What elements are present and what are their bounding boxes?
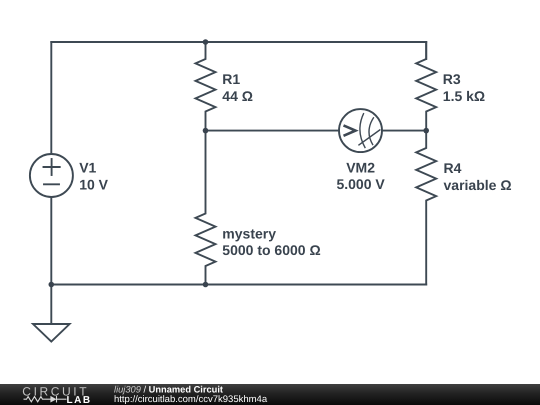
voltmeter VM2	[339, 109, 382, 152]
svg-text:5000 to 6000 Ω: 5000 to 6000 Ω	[222, 242, 320, 258]
svg-text:R1: R1	[222, 71, 240, 87]
svg-text:LAB: LAB	[67, 395, 92, 405]
svg-text:44 Ω: 44 Ω	[222, 88, 253, 104]
resistor mystery	[196, 131, 216, 285]
svg-text:10 V: 10 V	[79, 176, 108, 192]
voltage source V1	[30, 154, 73, 197]
svg-text:http://circuitlab.com/ccv7k935: http://circuitlab.com/ccv7k935khm4a	[114, 394, 268, 405]
ground	[33, 324, 70, 342]
svg-text:R3: R3	[443, 71, 461, 87]
logo resistor-diode glyph	[24, 396, 67, 403]
voltmeter VM2 symbol	[344, 113, 381, 148]
svg-text:R4: R4	[444, 160, 462, 176]
node junctions	[49, 39, 430, 287]
svg-text:V1: V1	[79, 160, 96, 176]
svg-text:5.000 V: 5.000 V	[336, 176, 385, 192]
svg-text:mystery: mystery	[222, 225, 276, 241]
svg-text:liuj309 / Unnamed Circuit: liuj309 / Unnamed Circuit	[114, 384, 223, 394]
svg-text:1.5 kΩ: 1.5 kΩ	[443, 88, 485, 104]
wire middle right (VM2 to right rail)	[382, 130, 426, 132]
wire bottom rail	[51, 284, 426, 286]
resistor R3	[416, 42, 436, 131]
footer bar	[0, 384, 540, 405]
svg-text:variable Ω: variable Ω	[444, 177, 512, 193]
resistor R4	[416, 131, 436, 285]
resistor R1	[196, 42, 216, 131]
wire left rail upper	[50, 42, 52, 154]
svg-text:VM2: VM2	[346, 160, 375, 176]
wire left rail lower	[50, 197, 52, 285]
wire right rail (R3 top corner)	[425, 42, 427, 59]
wire ground stem	[50, 285, 52, 325]
wire top rail	[51, 41, 426, 43]
wire middle left (R1 to VM2)	[206, 130, 340, 132]
